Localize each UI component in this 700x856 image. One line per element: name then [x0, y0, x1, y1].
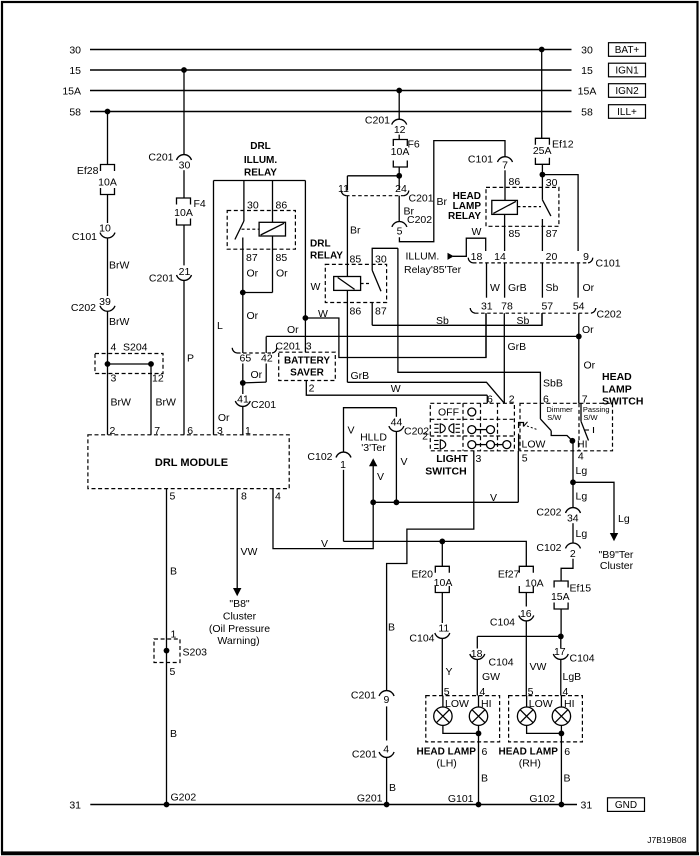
svg-text:85: 85 — [276, 252, 288, 264]
svg-text:18: 18 — [471, 251, 483, 263]
svg-text:LOW: LOW — [522, 438, 546, 450]
svg-text:31: 31 — [481, 300, 493, 312]
svg-text:"B8": "B8" — [229, 598, 250, 610]
svg-text:2: 2 — [509, 394, 515, 406]
svg-text:10A: 10A — [391, 146, 410, 158]
svg-text:5: 5 — [397, 225, 403, 237]
svg-text:10A: 10A — [525, 578, 544, 590]
svg-text:B: B — [170, 566, 177, 578]
svg-text:Br: Br — [350, 225, 361, 237]
svg-text:21: 21 — [179, 266, 191, 278]
svg-text:42: 42 — [261, 353, 273, 365]
svg-text:4: 4 — [111, 342, 117, 354]
svg-text:2: 2 — [110, 425, 116, 437]
svg-text:3: 3 — [476, 453, 482, 465]
svg-text:2: 2 — [570, 548, 576, 560]
svg-text:BAT+: BAT+ — [615, 45, 640, 56]
svg-text:6: 6 — [482, 746, 488, 758]
svg-text:3: 3 — [111, 373, 117, 385]
svg-text:V: V — [348, 424, 355, 436]
svg-text:C102: C102 — [536, 542, 561, 554]
svg-text:5: 5 — [528, 686, 534, 698]
svg-text:1: 1 — [245, 425, 251, 437]
svg-text:Relay'85'Ter: Relay'85'Ter — [404, 264, 462, 276]
svg-text:DRL: DRL — [310, 239, 331, 250]
svg-text:Ef15: Ef15 — [570, 583, 592, 595]
svg-text:9: 9 — [383, 694, 389, 706]
svg-text:IGN2: IGN2 — [615, 86, 639, 97]
svg-text:IGN1: IGN1 — [615, 66, 639, 77]
svg-text:3: 3 — [306, 340, 312, 352]
svg-text:LAMP: LAMP — [453, 201, 482, 212]
svg-text:HI: HI — [577, 438, 588, 450]
svg-text:C101: C101 — [596, 258, 621, 270]
svg-text:C104: C104 — [490, 617, 515, 629]
svg-text:6: 6 — [564, 746, 570, 758]
svg-text:G201: G201 — [357, 793, 383, 805]
svg-text:SAVER: SAVER — [290, 368, 324, 379]
svg-text:Lg: Lg — [618, 513, 630, 525]
svg-text:6: 6 — [543, 394, 549, 406]
svg-text:(LH): (LH) — [436, 757, 456, 769]
svg-text:Warning): Warning) — [217, 635, 259, 647]
svg-text:GND: GND — [615, 800, 637, 811]
svg-text:C202: C202 — [71, 302, 96, 314]
svg-text:HI: HI — [564, 698, 575, 710]
svg-text:8: 8 — [241, 491, 247, 503]
svg-text:LAMP: LAMP — [602, 384, 632, 396]
svg-text:6: 6 — [187, 425, 193, 437]
svg-text:Cluster: Cluster — [223, 610, 257, 622]
svg-text:ILLUM.: ILLUM. — [406, 251, 440, 263]
svg-text:DRL MODULE: DRL MODULE — [155, 457, 228, 469]
svg-text:65: 65 — [240, 353, 252, 365]
svg-text:C102: C102 — [307, 451, 332, 463]
svg-text:Y: Y — [446, 666, 453, 678]
svg-text:10A: 10A — [174, 207, 193, 219]
svg-text:S/W: S/W — [547, 413, 562, 422]
svg-text:41: 41 — [237, 393, 249, 405]
svg-text:LIGHT: LIGHT — [436, 453, 468, 465]
svg-text:86: 86 — [350, 305, 362, 317]
svg-text:Or: Or — [218, 412, 230, 424]
svg-text:SbB: SbB — [543, 378, 563, 390]
svg-text:S204: S204 — [123, 342, 148, 354]
svg-text:W: W — [391, 383, 401, 395]
svg-text:78: 78 — [501, 300, 513, 312]
svg-text:7: 7 — [582, 394, 588, 406]
svg-text:24: 24 — [395, 183, 407, 195]
svg-text:C101: C101 — [72, 231, 97, 243]
svg-text:VW: VW — [241, 546, 258, 558]
svg-text:4: 4 — [383, 743, 389, 755]
svg-text:S/W: S/W — [583, 413, 598, 422]
svg-text:C201: C201 — [352, 748, 377, 760]
svg-text:Or: Or — [584, 360, 596, 372]
svg-text:Ef28: Ef28 — [77, 165, 99, 177]
svg-text:ILL+: ILL+ — [617, 107, 637, 118]
svg-text:C202: C202 — [597, 308, 622, 320]
svg-text:Or: Or — [583, 282, 595, 294]
svg-text:BrW: BrW — [156, 397, 177, 409]
svg-text:V: V — [490, 492, 497, 504]
svg-text:BrW: BrW — [109, 316, 130, 328]
svg-text:31: 31 — [581, 799, 593, 811]
svg-text:C202: C202 — [407, 214, 432, 226]
svg-text:VW: VW — [530, 661, 547, 673]
svg-text:10: 10 — [99, 222, 111, 234]
svg-text:HI: HI — [481, 698, 492, 710]
svg-text:C202: C202 — [404, 426, 429, 438]
svg-text:B: B — [170, 728, 177, 740]
svg-text:4: 4 — [275, 491, 281, 503]
svg-text:Or: Or — [582, 324, 594, 336]
svg-text:'3'Ter: '3'Ter — [361, 442, 386, 454]
svg-text:Sb: Sb — [517, 315, 530, 327]
svg-text:GrB: GrB — [351, 370, 370, 382]
svg-text:G102: G102 — [529, 793, 555, 805]
svg-text:LOW: LOW — [529, 698, 553, 710]
svg-text:W: W — [472, 226, 482, 238]
svg-text:B: B — [564, 772, 571, 784]
svg-text:5: 5 — [444, 686, 450, 698]
svg-text:P: P — [187, 353, 194, 365]
svg-text:58: 58 — [581, 107, 593, 119]
svg-text:G101: G101 — [448, 793, 474, 805]
svg-text:DRL: DRL — [250, 141, 271, 152]
svg-text:RELAY: RELAY — [448, 211, 481, 222]
svg-text:1: 1 — [340, 459, 346, 471]
svg-text:Cluster: Cluster — [600, 560, 634, 572]
svg-text:V: V — [321, 538, 328, 550]
svg-text:L: L — [217, 320, 223, 332]
svg-text:16: 16 — [520, 608, 532, 620]
svg-text:BrW: BrW — [109, 260, 130, 272]
svg-text:C201: C201 — [148, 152, 173, 164]
svg-text:C201: C201 — [251, 399, 276, 411]
svg-text:9: 9 — [583, 251, 589, 263]
svg-text:S203: S203 — [183, 647, 208, 659]
svg-text:Or: Or — [287, 324, 299, 336]
svg-text:C101: C101 — [468, 153, 493, 165]
svg-text:4: 4 — [578, 450, 584, 462]
svg-text:87: 87 — [546, 228, 558, 240]
svg-text:B: B — [389, 782, 396, 794]
svg-text:30: 30 — [69, 45, 81, 57]
svg-text:39: 39 — [99, 296, 111, 308]
svg-text:RELAY: RELAY — [310, 250, 343, 261]
svg-text:11: 11 — [438, 623, 449, 635]
svg-text:SWITCH: SWITCH — [425, 466, 466, 478]
svg-text:GrB: GrB — [508, 341, 527, 353]
svg-text:HEAD LAMP: HEAD LAMP — [416, 747, 476, 758]
svg-text:86: 86 — [276, 199, 288, 211]
svg-text:44: 44 — [391, 416, 403, 428]
svg-text:W: W — [490, 282, 500, 294]
svg-text:C201: C201 — [351, 689, 376, 701]
svg-text:Or: Or — [276, 267, 288, 279]
svg-text:25A: 25A — [533, 145, 552, 157]
svg-text:7: 7 — [154, 425, 160, 437]
svg-text:12: 12 — [394, 124, 406, 136]
svg-text:LgB: LgB — [563, 671, 582, 683]
svg-text:85: 85 — [509, 228, 521, 240]
svg-text:V: V — [377, 471, 384, 483]
svg-text:Sb: Sb — [546, 282, 559, 294]
svg-text:17: 17 — [554, 646, 566, 658]
svg-text:57: 57 — [541, 300, 553, 312]
svg-text:87: 87 — [246, 252, 258, 264]
svg-text:31: 31 — [69, 800, 81, 812]
svg-text:10A: 10A — [434, 577, 453, 589]
svg-text:C201: C201 — [365, 115, 390, 127]
svg-text:86: 86 — [509, 176, 521, 188]
svg-text:5: 5 — [170, 666, 176, 678]
svg-text:J7B19B08: J7B19B08 — [647, 835, 686, 845]
svg-text:B: B — [481, 772, 488, 784]
svg-text:(Oil Pressure: (Oil Pressure — [209, 623, 270, 635]
svg-text:3: 3 — [217, 425, 223, 437]
svg-text:OFF: OFF — [438, 407, 459, 419]
svg-text:BrW: BrW — [111, 397, 132, 409]
svg-text:Br: Br — [437, 196, 448, 208]
svg-text:58: 58 — [69, 107, 81, 119]
svg-text:5: 5 — [170, 491, 176, 503]
svg-text:F4: F4 — [194, 198, 206, 210]
svg-text:5: 5 — [522, 452, 528, 464]
svg-text:Or: Or — [251, 369, 263, 381]
svg-text:15A: 15A — [62, 86, 81, 98]
svg-text:V: V — [401, 456, 408, 468]
svg-text:C202: C202 — [536, 507, 561, 519]
svg-text:Sb: Sb — [436, 315, 449, 327]
svg-text:F6: F6 — [408, 139, 420, 151]
svg-text:C201: C201 — [409, 193, 434, 205]
svg-text:C104: C104 — [570, 653, 595, 665]
svg-text:10A: 10A — [98, 177, 117, 189]
svg-text:Lg: Lg — [576, 528, 588, 540]
svg-text:4: 4 — [563, 686, 569, 698]
svg-text:GW: GW — [482, 671, 500, 683]
svg-text:C104: C104 — [409, 633, 434, 645]
svg-text:RELAY: RELAY — [244, 168, 277, 179]
svg-text:12: 12 — [152, 373, 164, 385]
svg-text:Ef20: Ef20 — [411, 569, 433, 581]
svg-text:54: 54 — [573, 300, 585, 312]
svg-text:(RH): (RH) — [519, 757, 541, 769]
svg-text:30: 30 — [375, 253, 387, 265]
svg-text:HEAD: HEAD — [602, 371, 632, 383]
svg-text:15A: 15A — [578, 86, 597, 98]
svg-text:Or: Or — [247, 267, 259, 279]
svg-text:85: 85 — [350, 253, 362, 265]
svg-text:Ef27: Ef27 — [498, 569, 520, 581]
svg-text:C201: C201 — [275, 340, 300, 352]
svg-text:C201: C201 — [149, 273, 174, 285]
svg-text:7: 7 — [502, 159, 508, 171]
svg-text:Lg: Lg — [576, 490, 588, 502]
svg-text:BATTERY: BATTERY — [284, 356, 330, 367]
svg-text:LOW: LOW — [445, 698, 469, 710]
svg-text:Or: Or — [247, 310, 259, 322]
svg-text:C104: C104 — [489, 657, 514, 669]
svg-text:ILLUM.: ILLUM. — [244, 155, 278, 166]
svg-text:15: 15 — [581, 65, 593, 77]
svg-text:34: 34 — [567, 512, 579, 524]
svg-text:15A: 15A — [551, 591, 570, 603]
svg-text:G202: G202 — [171, 792, 197, 804]
svg-text:4: 4 — [480, 686, 486, 698]
svg-text:30: 30 — [247, 199, 259, 211]
svg-text:W: W — [311, 281, 321, 293]
svg-text:30: 30 — [179, 159, 191, 171]
svg-text:GrB: GrB — [508, 282, 527, 294]
svg-text:20: 20 — [546, 251, 558, 263]
svg-text:2: 2 — [309, 382, 315, 394]
svg-text:30: 30 — [546, 177, 558, 189]
svg-text:87: 87 — [375, 305, 387, 317]
svg-text:6: 6 — [487, 394, 493, 406]
svg-text:30: 30 — [581, 45, 593, 57]
svg-text:Ef12: Ef12 — [552, 138, 574, 150]
svg-text:14: 14 — [494, 251, 506, 263]
svg-text:Lg: Lg — [576, 465, 588, 477]
svg-text:HEAD LAMP: HEAD LAMP — [498, 747, 558, 758]
svg-text:15: 15 — [69, 65, 81, 77]
svg-text:B: B — [388, 622, 395, 634]
